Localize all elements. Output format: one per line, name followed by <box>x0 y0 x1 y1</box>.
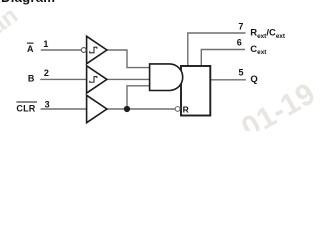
svg-text:6: 6 <box>237 38 242 48</box>
junction node dot <box>124 106 130 112</box>
svg-text:5: 5 <box>238 68 243 78</box>
svg-text:Diagram: Diagram <box>1 0 55 5</box>
svg-text:1: 1 <box>43 39 48 49</box>
wire Q output pin 5 <box>211 79 247 81</box>
buffer U2 (schmitt) <box>87 66 107 93</box>
svg-text:A: A <box>27 44 34 54</box>
U1 input bubble <box>81 48 86 53</box>
svg-text:7: 7 <box>238 22 243 32</box>
wire junction to AND gate third input <box>127 86 150 109</box>
wire pin1 to inverter bubble <box>41 49 82 51</box>
wire box top to pin 7 <box>188 33 246 66</box>
U1 hysteresis symbol <box>89 47 97 53</box>
svg-text:CLR: CLR <box>16 104 35 114</box>
AND gate U5 <box>150 64 183 91</box>
U2 hysteresis symbol <box>89 77 97 83</box>
svg-text:2: 2 <box>44 68 49 78</box>
svg-text:R: R <box>183 105 189 115</box>
svg-text:B: B <box>28 74 35 84</box>
wire U2 output to AND gate <box>107 78 151 80</box>
buffer U3 <box>87 95 107 122</box>
svg-text:3: 3 <box>45 100 50 110</box>
svg-text:Q: Q <box>250 74 257 85</box>
wire box top to pin 6 <box>201 50 245 66</box>
wire U3 output to R bubble <box>107 108 176 110</box>
R input bubble on box <box>175 107 180 112</box>
inverter U1 (schmitt, bubbled input) <box>87 36 107 63</box>
wire pin2 to buffer U2 <box>40 78 87 80</box>
wire pin3 to buffer U3 <box>41 108 88 110</box>
one-shot box U4 <box>181 66 210 116</box>
wire U1 output to AND gate (corner at x127) <box>107 50 151 68</box>
